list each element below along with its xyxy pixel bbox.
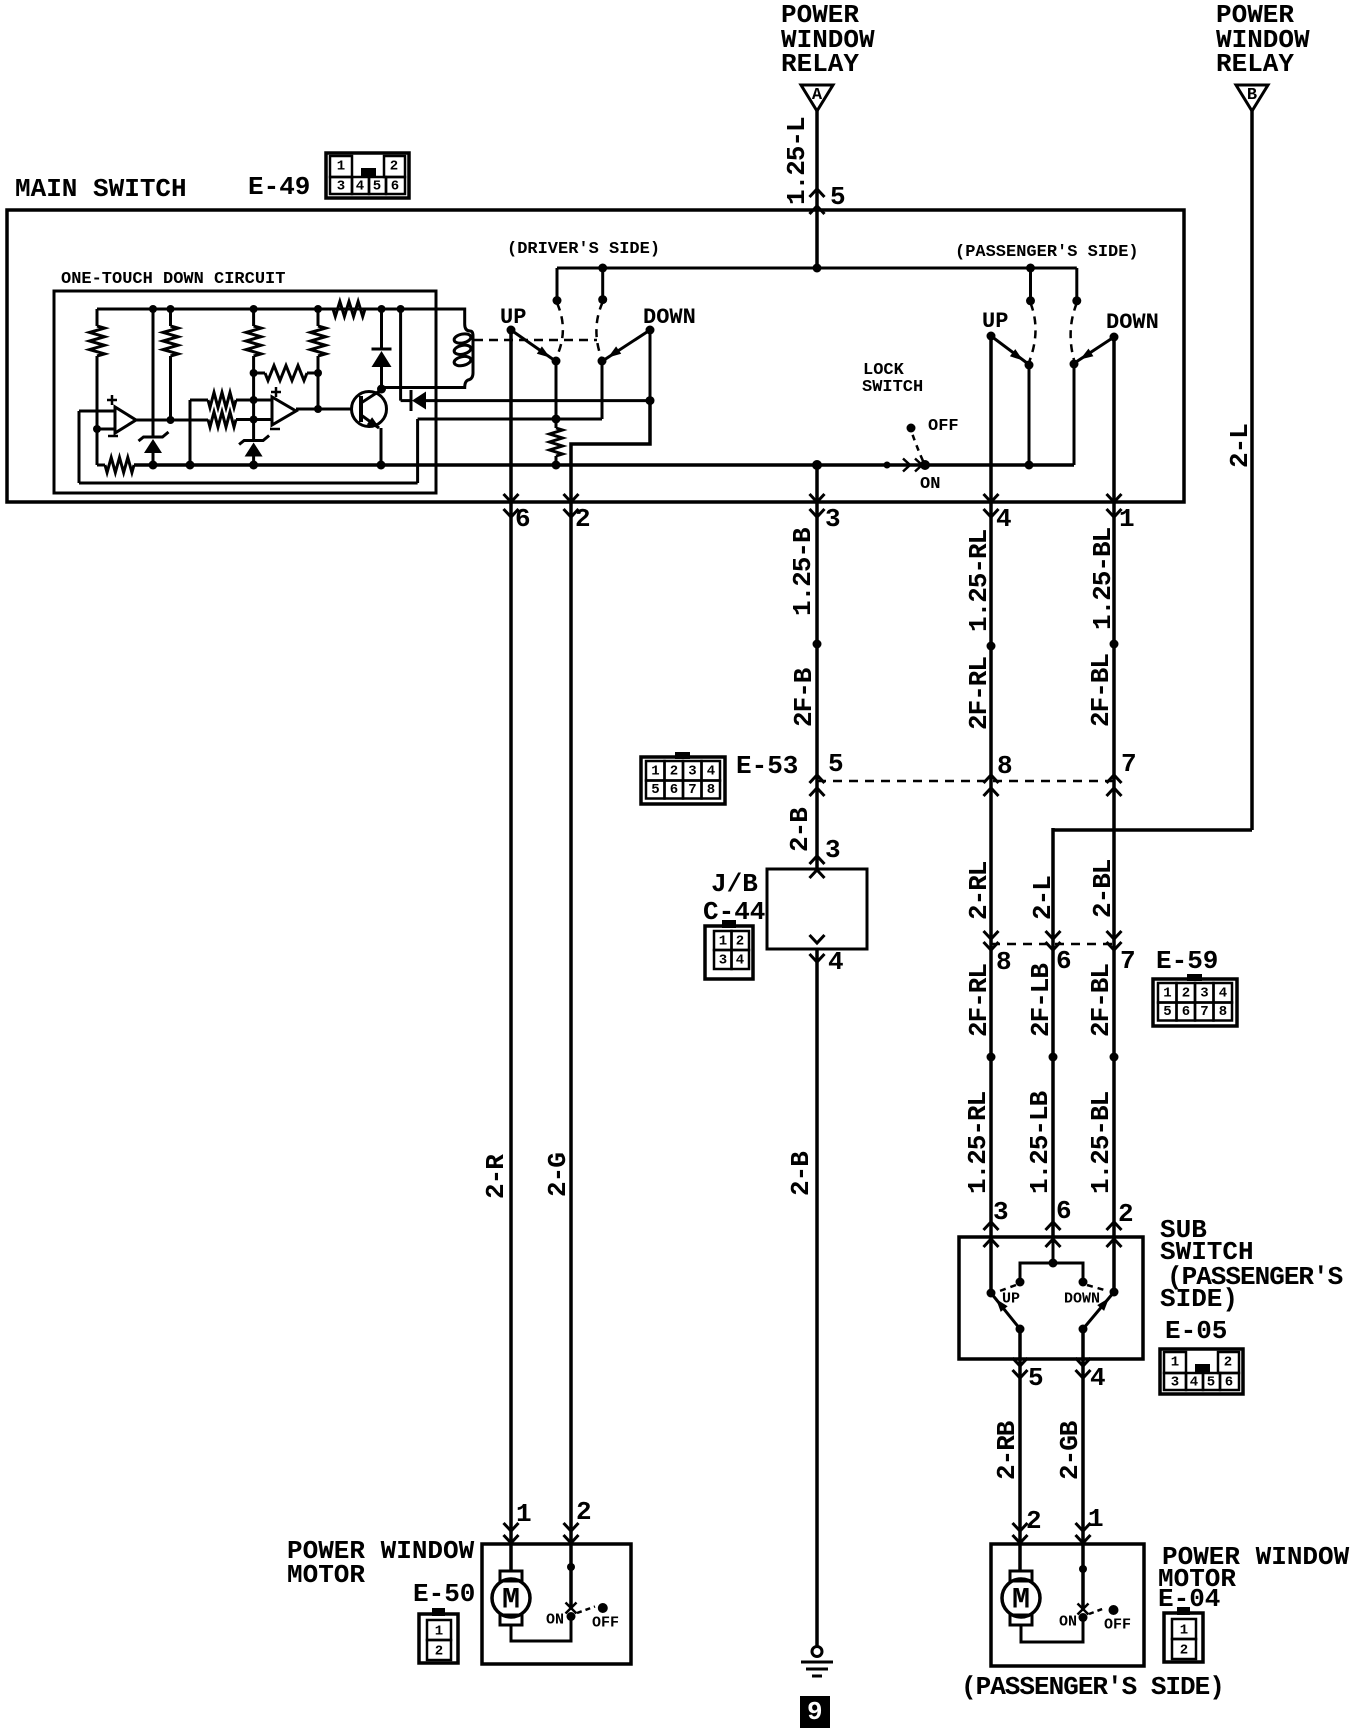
sub DOWN contact node — [1110, 1288, 1119, 1297]
wire R4 node to U2 output — [317, 373, 320, 409]
connector icon E-49 — [326, 153, 409, 198]
svg-text:DOWN: DOWN — [1064, 1290, 1100, 1307]
svg-text:2-R: 2-R — [481, 1154, 511, 1199]
motor switch blade dashed — [577, 1607, 595, 1614]
J/B entry marks — [810, 856, 825, 864]
svg-text:1: 1 — [337, 159, 345, 175]
svg-text:OFF: OFF — [1104, 1616, 1131, 1633]
svg-text:(PASSENGER'S SIDE): (PASSENGER'S SIDE) — [955, 243, 1139, 262]
lock switch wiper arrows — [903, 459, 910, 472]
svg-text:1.25-B: 1.25-B — [788, 527, 818, 616]
wire sense line to UP contact — [418, 418, 602, 421]
svg-text:J/B: J/B — [711, 869, 758, 899]
motor OFF terminal node — [598, 1603, 608, 1613]
node motor2 switch feed — [1079, 1565, 1087, 1573]
svg-text:OFF: OFF — [592, 1614, 619, 1631]
wire op-amp U1 output — [136, 419, 208, 422]
node lock rail small — [884, 462, 891, 469]
svg-text:MAIN SWITCH: MAIN SWITCH — [15, 174, 187, 204]
node R2/op-amp1 output — [167, 416, 175, 424]
svg-text:2: 2 — [435, 1644, 443, 1660]
svg-text:1.25-RL: 1.25-RL — [964, 529, 994, 632]
motor E-50 pin 1 marks — [504, 1523, 519, 1531]
node motor ON contact — [567, 1612, 576, 1621]
svg-text:1.25-LB: 1.25-LB — [1025, 1090, 1055, 1194]
zener diode D3 — [139, 432, 169, 441]
passenger DOWN contact node — [1070, 360, 1079, 369]
connector icon E-05 — [1160, 1349, 1243, 1394]
wire U2 - input — [254, 418, 272, 421]
node rail-381 bottom — [377, 461, 386, 470]
driver switch blade (dashed) right — [596, 302, 602, 357]
svg-text:3: 3 — [1200, 986, 1208, 1002]
svg-text:1: 1 — [719, 934, 727, 950]
passenger bracket contact nodes — [1026, 296, 1035, 305]
wire op-amp U1 - input — [97, 428, 115, 431]
motor E-50 pin 2 marks — [564, 1523, 579, 1531]
wire driver DOWN terminal to D2 line — [649, 330, 652, 399]
driver UP contact node — [552, 357, 561, 366]
node wire1 splice — [1110, 640, 1119, 649]
wire zener to ground rail — [152, 453, 155, 465]
resistor R10 (driver) — [550, 428, 563, 456]
svg-text:4: 4 — [1219, 986, 1227, 1002]
svg-text:MOTOR: MOTOR — [287, 1560, 365, 1590]
svg-text:7: 7 — [1120, 946, 1136, 976]
wire R5 to node — [236, 399, 254, 402]
svg-text:2F-B: 2F-B — [789, 667, 819, 727]
wire R6 to node — [236, 418, 254, 421]
connector icon E-59 — [1153, 979, 1237, 1026]
power window relay terminal B (triangle) — [1236, 85, 1268, 111]
svg-text:3: 3 — [825, 835, 841, 865]
node bus-driver — [598, 264, 607, 273]
driver DOWN contact node — [598, 357, 607, 366]
motor2 switch blade dashed — [1089, 1608, 1105, 1614]
node rail-170 — [167, 305, 175, 313]
power window relay terminal A (triangle) — [801, 85, 833, 111]
wire U2 + input — [254, 399, 272, 402]
sub arm nodes — [1016, 1325, 1025, 1334]
zener diode D4 — [252, 420, 255, 441]
sub bracket nodes — [1016, 1278, 1025, 1287]
resistor R8 (top rail series) — [333, 302, 365, 317]
resistor R2 — [169, 309, 172, 326]
lock OFF terminal node — [907, 424, 916, 433]
svg-text:A: A — [812, 86, 823, 105]
svg-text:4: 4 — [707, 764, 715, 780]
svg-text:5: 5 — [828, 749, 844, 779]
wire motor M2 bottom loop — [1021, 1618, 1083, 1642]
wire passenger DOWN contact to rail end — [1073, 364, 1076, 465]
svg-text:1: 1 — [1088, 1504, 1104, 1534]
op-amp U1 — [115, 407, 136, 433]
wire 2-L elbow to E-59 pin 6 — [1053, 828, 1252, 832]
node U2 - input — [250, 416, 258, 424]
svg-text:1: 1 — [516, 1499, 532, 1529]
lock switch blade (dashed) — [912, 433, 923, 461]
svg-text:RELAY: RELAY — [781, 49, 859, 79]
svg-text:8: 8 — [707, 782, 715, 798]
svg-text:8: 8 — [997, 751, 1013, 781]
node wire4 splice — [987, 642, 996, 651]
driver UP terminal node — [507, 326, 516, 335]
relay coil L1 — [382, 309, 474, 388]
svg-text:2F-RL: 2F-RL — [964, 657, 994, 730]
svg-text:5: 5 — [651, 782, 659, 798]
resistor R3 — [252, 309, 255, 326]
node wire BL splice2 — [1110, 1053, 1119, 1062]
svg-text:(PASSENGER'S SIDE): (PASSENGER'S SIDE) — [961, 1672, 1224, 1702]
svg-text:4: 4 — [356, 179, 364, 195]
svg-text:6: 6 — [1182, 1004, 1190, 1020]
passenger switch blade (dashed) right — [1071, 303, 1077, 360]
svg-text:6: 6 — [1056, 1196, 1072, 1226]
node R10 ground rail — [552, 461, 561, 470]
node rail-190 bottom — [186, 461, 195, 470]
passenger switch common bracket — [1029, 268, 1032, 301]
svg-text:3: 3 — [825, 504, 841, 534]
svg-text:4: 4 — [996, 504, 1012, 534]
wire 2-B to ground — [815, 949, 819, 1646]
svg-text:9: 9 — [807, 1697, 823, 1727]
svg-text:SWITCH: SWITCH — [862, 378, 923, 397]
node rail-253 bottom — [249, 461, 258, 470]
bus wire from pin 5 — [557, 267, 1077, 270]
node R4/R7 — [314, 369, 322, 377]
diode D2 to switch — [399, 309, 402, 401]
svg-text:4: 4 — [828, 947, 844, 977]
transistor Q1 emitter — [361, 415, 379, 428]
node rail-153 bottom — [149, 461, 158, 470]
svg-text:2-B: 2-B — [786, 1151, 816, 1196]
pin 3 exit marks — [810, 494, 825, 502]
node bus-passenger — [1026, 264, 1035, 273]
connector icon E-04 — [1164, 1613, 1203, 1662]
svg-text:1.25-L: 1.25-L — [782, 117, 812, 205]
sub UP moving arm — [991, 1293, 1020, 1329]
node rail-381 — [378, 305, 386, 313]
svg-text:2-RB: 2-RB — [992, 1420, 1022, 1480]
E-59 crossing marks pin6 — [1046, 931, 1061, 939]
wire motor M1 bottom loop — [511, 1616, 571, 1641]
transistor Q1 — [352, 392, 387, 427]
transistor Q1 collector — [361, 390, 381, 403]
passenger DOWN terminal node — [1110, 333, 1119, 342]
E-53 crossing marks pin5 — [810, 775, 825, 783]
node rail-253 — [250, 305, 258, 313]
wire R1 to bottom rail — [96, 429, 99, 465]
diode D1 (flyback) — [380, 309, 383, 349]
svg-text:2: 2 — [736, 934, 744, 950]
svg-text:5: 5 — [1163, 1004, 1171, 1020]
svg-text:2-L: 2-L — [1028, 876, 1058, 920]
svg-text:8: 8 — [996, 947, 1012, 977]
passenger UP terminal node — [987, 332, 996, 341]
junction block J/B box — [767, 869, 867, 949]
sub switch bracket — [1020, 1263, 1083, 1282]
motor2 OFF terminal node — [1109, 1605, 1119, 1615]
svg-text:7: 7 — [688, 782, 696, 798]
page reference 9 — [800, 1696, 830, 1728]
sub switch box — [959, 1237, 1143, 1359]
svg-text:(DRIVER'S SIDE): (DRIVER'S SIDE) — [507, 240, 660, 259]
node U2 + input — [250, 396, 258, 404]
sub switch common node — [1049, 1259, 1058, 1268]
pin 2 exit marks — [564, 494, 579, 502]
svg-text:1: 1 — [435, 1624, 443, 1640]
passenger DOWN moving arm — [1076, 337, 1114, 362]
ground symbol — [812, 1647, 822, 1657]
sub switch exit marks pin4 — [1076, 1358, 1091, 1366]
svg-text:2F-RL: 2F-RL — [964, 964, 994, 1037]
svg-text:2F-BL: 2F-BL — [1086, 654, 1116, 727]
motor switch contact X — [566, 1603, 577, 1614]
motor M1 (driver) — [500, 1571, 522, 1581]
passenger UP moving arm — [991, 336, 1027, 363]
sub switch entry marks pin3 — [984, 1222, 999, 1230]
passenger switch blade (dashed) left — [1030, 303, 1036, 361]
pin 6 exit marks — [504, 494, 519, 502]
svg-text:3: 3 — [337, 179, 345, 195]
node wire RL splice2 — [987, 1053, 996, 1062]
node UP contact rail — [1025, 461, 1034, 470]
sub switch output wires — [1018, 1329, 1022, 1544]
svg-text:ON: ON — [546, 1611, 564, 1628]
svg-text:6: 6 — [515, 504, 531, 534]
main switch box — [7, 210, 1184, 502]
svg-text:4: 4 — [1190, 1375, 1198, 1391]
motor E-04 pin 1 marks — [1076, 1523, 1091, 1531]
sub switch center wire — [1052, 1237, 1055, 1263]
svg-text:2-B: 2-B — [785, 807, 815, 852]
svg-text:1: 1 — [1163, 986, 1171, 1002]
wire Q1 emitter to ground rail — [380, 428, 383, 465]
svg-text:E-49: E-49 — [248, 172, 310, 202]
node sense/UP contact — [552, 415, 561, 424]
sub DOWN moving arm — [1083, 1292, 1114, 1329]
svg-text:2: 2 — [390, 159, 398, 175]
svg-text:5: 5 — [373, 179, 381, 195]
svg-text:2: 2 — [1182, 986, 1190, 1002]
svg-text:3: 3 — [719, 953, 727, 969]
resistor R4 — [317, 309, 320, 326]
op-amp U2 — [272, 397, 296, 425]
E-59 crossing marks pin8 — [984, 931, 999, 939]
svg-text:5: 5 — [1207, 1375, 1215, 1391]
wire relay A to main switch pin 5 — [815, 110, 819, 268]
sub switch entry marks pin2 — [1107, 1222, 1122, 1230]
resistor R6 — [208, 412, 236, 427]
wire pin 6 from driver UP — [509, 330, 513, 1571]
wire pin 2 from DOWN line — [571, 401, 650, 1610]
svg-text:2: 2 — [1026, 1506, 1042, 1536]
node U2 output feedback — [314, 405, 322, 413]
node wire LB splice2 — [1049, 1053, 1058, 1062]
svg-text:E-05: E-05 — [1165, 1316, 1227, 1346]
wire upper resistor R5 left leg — [190, 399, 208, 402]
power window motor box (passenger) — [991, 1544, 1144, 1666]
svg-text:2: 2 — [1118, 1199, 1134, 1229]
motor E-04 pin 2 marks — [1013, 1523, 1028, 1531]
svg-text:1: 1 — [1119, 504, 1135, 534]
svg-text:4: 4 — [1090, 1363, 1106, 1393]
svg-text:E-59: E-59 — [1156, 946, 1218, 976]
connector icon E-50 — [419, 1614, 458, 1663]
wire pin 1 from passenger DOWN — [1112, 337, 1116, 1292]
svg-text:2: 2 — [576, 1497, 592, 1527]
svg-text:1.25-BL: 1.25-BL — [1088, 527, 1118, 630]
sub UP contact node — [987, 1289, 996, 1298]
resistor R7 (horizontal) — [254, 372, 265, 375]
svg-text:2: 2 — [1180, 1643, 1188, 1659]
svg-text:E-53: E-53 — [736, 751, 798, 781]
E-53 crossing marks pin7 — [1107, 775, 1122, 783]
driver DOWN terminal node — [646, 326, 655, 335]
svg-text:7: 7 — [1200, 1004, 1208, 1020]
svg-text:2: 2 — [575, 504, 591, 534]
node motor2 ON contact — [1079, 1613, 1088, 1622]
wire passenger UP contact to rail — [1028, 365, 1031, 465]
svg-text:1: 1 — [651, 764, 659, 780]
node wire3 splice — [813, 640, 822, 649]
ground rail (bottom) with resistor R9 — [97, 464, 105, 467]
svg-text:RELAY: RELAY — [1216, 49, 1294, 79]
svg-text:SIDE): SIDE) — [1160, 1284, 1238, 1314]
svg-text:OFF: OFF — [928, 417, 959, 436]
power window motor box (driver) — [482, 1544, 631, 1664]
motor M2 (passenger) — [1010, 1571, 1032, 1581]
node rail-401 — [397, 305, 405, 313]
sub switch blade dashed right — [1087, 1285, 1108, 1291]
svg-text:5: 5 — [1028, 1363, 1044, 1393]
svg-text:3: 3 — [1171, 1375, 1179, 1391]
svg-text:B: B — [1247, 86, 1257, 105]
svg-text:8: 8 — [1219, 1004, 1227, 1020]
svg-text:2: 2 — [1224, 1355, 1232, 1371]
connector icon C-44 — [705, 926, 753, 979]
wire node to U2 + node — [252, 373, 255, 400]
pin 1 exit marks — [1107, 494, 1122, 502]
node DOWN-D2 — [646, 396, 655, 405]
sub switch entry marks pin6 — [1046, 1222, 1061, 1230]
node lock ON junction — [920, 460, 930, 470]
wire motor M2 feed — [1018, 1544, 1022, 1571]
svg-text:ON: ON — [920, 475, 940, 494]
node collector/diode D1 — [377, 385, 386, 394]
driver bracket contact nodes — [553, 296, 562, 305]
node R3/R7 — [250, 369, 258, 377]
svg-text:2-GB: 2-GB — [1055, 1420, 1085, 1480]
E-59 crossing marks pin7 — [1107, 931, 1122, 939]
passenger UP contact node — [1025, 361, 1034, 370]
connector icon E-53 — [641, 757, 725, 804]
svg-text:2-BL: 2-BL — [1088, 859, 1118, 918]
svg-text:6: 6 — [1225, 1375, 1233, 1391]
svg-text:5: 5 — [830, 182, 846, 212]
svg-text:3: 3 — [688, 764, 696, 780]
svg-text:1.25-RL: 1.25-RL — [963, 1091, 993, 1194]
wire pin 4 from passenger UP — [989, 336, 993, 1293]
svg-text:1: 1 — [1171, 1355, 1179, 1371]
node motor switch feed — [567, 1563, 575, 1571]
wire 2-L from relay B — [1250, 110, 1254, 830]
svg-text:M: M — [502, 1584, 520, 1618]
driver UP moving arm — [511, 330, 554, 360]
wire D2 output to DOWN switch — [426, 399, 650, 402]
E-53 crossing marks pin8 — [984, 775, 999, 783]
pin 5 entry marks — [810, 189, 825, 197]
svg-text:ONE-TOUCH DOWN CIRCUIT: ONE-TOUCH DOWN CIRCUIT — [61, 270, 285, 289]
svg-text:6: 6 — [1056, 946, 1072, 976]
node rail-153 — [149, 305, 157, 313]
one-touch down circuit box — [54, 291, 436, 493]
wire driver DOWN contact to sense line — [601, 361, 604, 419]
svg-text:2F-BL: 2F-BL — [1086, 964, 1116, 1037]
svg-text:E-50: E-50 — [413, 1579, 475, 1609]
wire op-amp U1 + input — [79, 410, 115, 413]
feedback wire from UP contact to U1 + — [78, 411, 81, 483]
node rail-318 — [314, 305, 322, 313]
svg-text:7: 7 — [1121, 749, 1137, 779]
wire driver UP contact to resistor — [555, 361, 558, 428]
wire pin 3 to E-53 — [815, 465, 819, 869]
mechanical link (dashed) coil to switch — [474, 339, 597, 342]
svg-text:2-L: 2-L — [1225, 424, 1255, 468]
svg-text:1: 1 — [1180, 1623, 1188, 1639]
svg-text:2: 2 — [670, 764, 678, 780]
svg-text:2F-LB: 2F-LB — [1026, 963, 1056, 1037]
wire between U2 inputs — [252, 400, 255, 420]
supply rail (top) — [97, 308, 436, 311]
node rail-pin3 — [812, 460, 822, 470]
svg-text:1.25-BL: 1.25-BL — [1086, 1091, 1116, 1194]
svg-text:2-RL: 2-RL — [964, 861, 994, 920]
E-59 connector line (dashed) — [991, 943, 1114, 946]
svg-text:6: 6 — [670, 782, 678, 798]
driver DOWN moving arm — [604, 330, 650, 360]
pin 4 exit marks — [984, 494, 999, 502]
resistor R5 — [208, 393, 236, 408]
sub switch blade dashed left — [997, 1285, 1016, 1292]
sub switch exit marks pin5 — [1013, 1358, 1028, 1366]
driver switch blade (dashed) left — [557, 303, 563, 357]
node pin5 junction — [813, 264, 822, 273]
svg-text:6: 6 — [391, 179, 399, 195]
svg-text:UP: UP — [982, 309, 1008, 334]
motor2 switch contact X — [1078, 1604, 1089, 1615]
resistor R1 — [96, 309, 99, 326]
driver switch common bracket — [556, 268, 559, 301]
E-53 connector line (dashed) — [817, 780, 1114, 783]
J/B exit marks — [810, 935, 825, 943]
svg-text:2-G: 2-G — [543, 1153, 573, 1197]
wire U2 output to transistor base — [296, 408, 353, 411]
svg-text:DOWN: DOWN — [1106, 310, 1159, 335]
svg-text:ON: ON — [1059, 1613, 1077, 1630]
svg-text:3: 3 — [993, 1197, 1009, 1227]
wire to zener D3 — [152, 309, 155, 437]
svg-text:4: 4 — [736, 953, 744, 969]
svg-text:M: M — [1012, 1584, 1030, 1618]
node R1/op-amp inverting input — [93, 425, 101, 433]
